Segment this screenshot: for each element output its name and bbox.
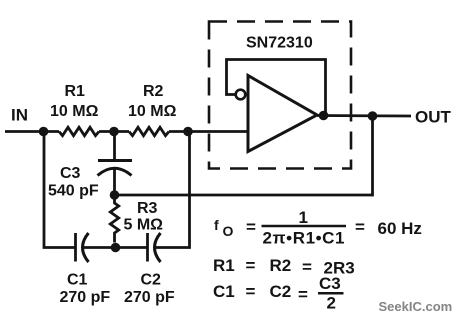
svg-text:R2: R2 <box>143 83 164 100</box>
wire left vertical (IN node down to bottom rail) <box>44 132 75 248</box>
op-amp inverting input bubble <box>236 90 246 100</box>
svg-text:R3: R3 <box>137 200 158 217</box>
op-amp U1 triangle <box>248 76 317 152</box>
node F junction (C3-R3-feedback) <box>110 190 120 200</box>
formula fraction bar (C3 over 2) <box>318 292 344 295</box>
svg-text:C2: C2 <box>270 282 292 301</box>
node A junction (IN node) <box>39 127 49 137</box>
svg-text:R2: R2 <box>270 256 292 275</box>
wire IN to R1 <box>5 130 59 133</box>
resistor R2 <box>129 127 169 135</box>
svg-text:C1: C1 <box>67 272 88 289</box>
svg-text:OUT: OUT <box>415 108 452 127</box>
formula fO = 1/(2π·R1·C1) = 60 Hz <box>214 208 422 248</box>
svg-text:R1: R1 <box>213 256 235 275</box>
wire OUT vertical (OUT node down to feedback rail) <box>371 116 374 196</box>
op-amp U1 dashed package box SN72310 <box>209 22 351 169</box>
formula fraction bar (1 over 2πR1C1) <box>262 225 347 228</box>
node M1 junction (R1-R2-C3) <box>109 127 119 137</box>
capacitor C3 <box>98 132 133 196</box>
svg-text:540 pF: 540 pF <box>48 183 99 200</box>
svg-text:C2: C2 <box>141 272 162 289</box>
svg-text:1: 1 <box>299 208 308 227</box>
svg-text:=: = <box>302 258 312 277</box>
wire R1 to R2 <box>99 130 129 133</box>
svg-text:2: 2 <box>327 294 336 313</box>
svg-text:10 MΩ: 10 MΩ <box>128 103 177 120</box>
capacitor C1 <box>76 233 89 262</box>
svg-text:=: = <box>246 282 256 301</box>
svg-text:f: f <box>214 217 219 233</box>
svg-text:=: = <box>298 285 308 304</box>
svg-text:SN72310: SN72310 <box>246 35 313 52</box>
wire feedback rail (node F to OUT vertical) <box>115 194 373 197</box>
wire op-amp output to OUT <box>317 114 411 117</box>
svg-text:=: = <box>246 256 256 275</box>
capacitor C2 <box>148 233 161 262</box>
svg-text:C3: C3 <box>319 274 341 293</box>
svg-text:=: = <box>246 218 256 237</box>
node output junction of op-amp <box>319 111 329 121</box>
node B junction (op-amp input node) <box>183 127 193 137</box>
node OUT junction <box>368 111 378 121</box>
svg-text:2π•R1•C1: 2π•R1•C1 <box>263 229 345 248</box>
svg-text:IN: IN <box>11 106 28 125</box>
svg-text:=: = <box>355 218 365 237</box>
node M2 junction (C1-C2-R3) <box>111 243 121 253</box>
wire C2 to right vertical up to node B <box>156 132 190 248</box>
svg-text:C3: C3 <box>60 165 81 182</box>
wire C1 to node M2 <box>84 246 148 249</box>
svg-text:C1: C1 <box>213 282 235 301</box>
svg-text:O: O <box>223 223 234 239</box>
resistor R3 <box>110 195 118 243</box>
svg-text:60 Hz: 60 Hz <box>378 219 422 238</box>
svg-text:R1: R1 <box>65 83 86 100</box>
svg-text:5 MΩ: 5 MΩ <box>124 217 164 234</box>
resistor R1 <box>59 127 99 135</box>
svg-text:SeekIC.com: SeekIC.com <box>379 299 453 314</box>
svg-text:270 pF: 270 pF <box>124 289 175 306</box>
svg-text:10 MΩ: 10 MΩ <box>50 103 99 120</box>
formula R1 = R2 = 2R3 <box>213 256 355 278</box>
formula C1 = C2 = C3/2 <box>213 274 341 313</box>
wire R2 to op-amp input <box>169 130 248 133</box>
wire internal feedback loop (output up, across, down to bubble) <box>227 60 326 116</box>
svg-text:270 pF: 270 pF <box>60 289 111 306</box>
